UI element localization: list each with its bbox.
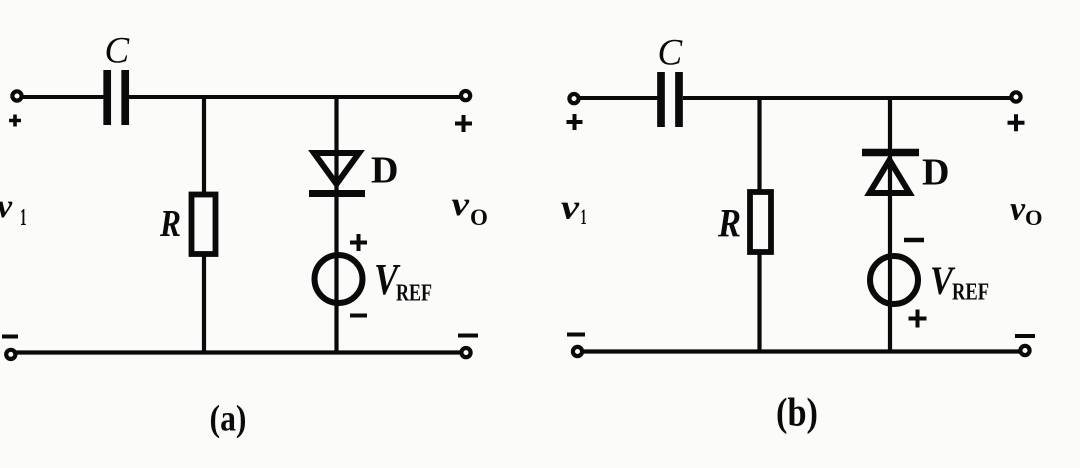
node input terminal (b): [569, 94, 578, 103]
diode D triangle (a): [314, 153, 359, 184]
wire bottom rail (a): [16, 350, 460, 354]
capacitor C plates (b): [661, 72, 679, 127]
svg-text:D: D: [922, 152, 949, 194]
diode D cathode bar (a): [309, 190, 365, 197]
wire R branch (a): [202, 97, 206, 352]
node bottom-left terminal (b): [573, 347, 582, 356]
source VREF circle (a): [315, 255, 363, 303]
source VREF circle (b): [870, 256, 918, 304]
svg-text:(b): (b): [776, 390, 818, 435]
polarity minus bottom-left (b): [567, 333, 585, 337]
wire top rail left segment (a): [22, 95, 104, 99]
wire top rail left segment (b): [580, 96, 658, 100]
svg-text:O: O: [470, 205, 488, 230]
source VREF plus (b): [909, 310, 927, 328]
wire top rail right segment (a): [129, 95, 460, 99]
source VREF minus (a): [350, 314, 367, 318]
svg-text:O: O: [1025, 205, 1043, 230]
wire bottom rail (b): [583, 349, 1019, 353]
svg-text:v: v: [452, 186, 471, 223]
diode D triangle (b): [870, 160, 910, 193]
svg-text:R: R: [159, 203, 181, 245]
svg-text:v: v: [561, 188, 580, 227]
resistor R box (b): [750, 192, 771, 252]
svg-text:v: v: [0, 188, 13, 225]
node bottom-left terminal (a): [6, 350, 15, 359]
polarity plus input (a): [9, 115, 21, 127]
polarity plus output (a): [455, 115, 472, 132]
polarity minus bottom-right (a): [458, 334, 478, 338]
svg-text:1: 1: [20, 205, 27, 231]
diode D cathode bar (b): [862, 149, 919, 157]
node input terminal (a): [12, 91, 21, 100]
source VREF minus (b): [904, 238, 924, 243]
wire diode branch (a): [334, 97, 338, 352]
polarity plus output (b): [1008, 114, 1025, 131]
svg-text:R: R: [717, 201, 741, 246]
wire top rail right segment (b): [683, 96, 1010, 100]
svg-text:1: 1: [581, 204, 587, 229]
polarity minus bottom-left (a): [2, 335, 18, 339]
node bottom-right terminal (a): [461, 348, 470, 357]
node bottom-right terminal (b): [1020, 346, 1029, 355]
svg-text:C: C: [105, 31, 131, 72]
svg-text:(a): (a): [210, 399, 247, 440]
svg-text:v: v: [1010, 191, 1026, 228]
capacitor C plates (a): [107, 70, 125, 125]
svg-text:REF: REF: [396, 281, 432, 307]
resistor R box (a): [192, 195, 216, 255]
node output terminal (a): [461, 91, 470, 100]
wire diode branch (b): [888, 98, 892, 352]
wire R branch (b): [757, 98, 761, 352]
polarity plus input (b): [567, 114, 583, 130]
svg-text:D: D: [371, 150, 398, 192]
node output terminal (b): [1011, 92, 1020, 101]
source VREF plus (a): [350, 234, 367, 251]
svg-text:REF: REF: [952, 280, 989, 306]
svg-text:C: C: [658, 33, 684, 74]
polarity minus bottom-right (b): [1015, 334, 1035, 338]
